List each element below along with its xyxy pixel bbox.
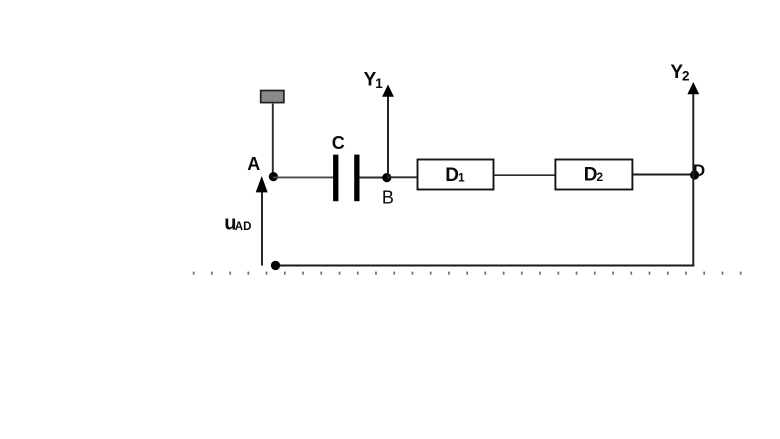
svg-text:1: 1 xyxy=(375,76,383,91)
svg-text:A: A xyxy=(247,154,260,174)
wire node B to block D1 xyxy=(387,176,418,178)
svg-text:C: C xyxy=(332,133,345,153)
svg-text:D: D xyxy=(445,165,459,186)
voltage arrow uAD line xyxy=(261,191,263,266)
svg-text:D: D xyxy=(693,161,705,180)
wire node A to capacitor xyxy=(273,176,334,178)
wire capacitor to node B xyxy=(360,177,388,179)
svg-text:2: 2 xyxy=(596,170,603,184)
wire node D down to bottom rail xyxy=(692,175,694,266)
node A xyxy=(269,172,278,181)
bottom rail wire xyxy=(276,265,695,267)
arrow Y2 head xyxy=(687,82,699,94)
block D1 xyxy=(418,160,494,190)
node D xyxy=(690,170,699,179)
arrow Y1 head xyxy=(382,85,394,97)
svg-text:B: B xyxy=(382,188,394,208)
svg-text:AD: AD xyxy=(235,221,252,233)
capacitor C right plate xyxy=(354,155,359,202)
arrow Y2 vertical line xyxy=(692,92,694,175)
bottom node xyxy=(271,261,280,270)
block D2 xyxy=(555,160,632,190)
wire block D2 to node D xyxy=(632,174,694,176)
svg-text:D: D xyxy=(584,164,598,185)
voltage arrow uAD head xyxy=(256,176,268,192)
svg-text:2: 2 xyxy=(682,68,690,83)
node B xyxy=(382,173,391,182)
ground reference dotted line xyxy=(193,272,742,275)
arrow Y1 vertical line xyxy=(387,95,389,178)
wire from plate to node A xyxy=(272,104,274,174)
wire block D1 to block D2 xyxy=(494,174,556,176)
antenna terminal plate xyxy=(261,91,284,103)
svg-text:1: 1 xyxy=(458,171,465,185)
capacitor C left plate xyxy=(333,155,338,202)
